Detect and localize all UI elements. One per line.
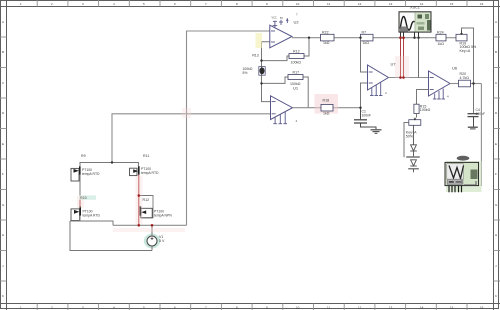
XSC2 pins	[449, 186, 462, 193]
left gate rail	[70, 221, 152, 251]
svg-text:K: K	[2, 294, 4, 298]
resistor R24	[436, 31, 446, 46]
svg-text:H: H	[495, 233, 497, 237]
Q1 emitter down / red segment	[79, 175, 81, 197]
svg-text:B: B	[495, 50, 497, 54]
wire Y4 down to XSC2	[464, 84, 481, 186]
resistor R7	[361, 31, 374, 45]
svg-text:R12: R12	[293, 49, 300, 53]
svg-text:tempA NPN: tempA NPN	[154, 213, 172, 217]
svg-text:5 V: 5 V	[159, 239, 165, 243]
resistor R17	[288, 70, 303, 85]
svg-text:A: A	[495, 20, 497, 24]
svg-text:tempA RTD: tempA RTD	[141, 171, 159, 175]
op-amp U7	[368, 62, 397, 90]
wire U2 minus vertical chain	[262, 42, 271, 102]
output row Y1 wires	[292, 37, 456, 39]
row Y5	[113, 224, 187, 226]
svg-text:15: 15	[450, 306, 454, 310]
wire branch to R12	[262, 38, 310, 61]
op-amp U6	[429, 66, 458, 96]
diode D2	[408, 160, 419, 173]
svg-text:B: B	[2, 50, 4, 54]
svg-text:H: H	[2, 233, 4, 237]
svg-text:11: 11	[327, 2, 330, 6]
Q3 source wire to row Y5	[80, 216, 113, 226]
power stubs U2	[273, 18, 289, 27]
power stubs U1	[273, 112, 287, 124]
svg-text:XSC1: XSC1	[410, 6, 420, 10]
svg-text:K: K	[495, 294, 497, 298]
svg-text:R12: R12	[143, 198, 150, 202]
svg-text:F: F	[495, 172, 497, 176]
svg-text:1kΩ: 1kΩ	[363, 41, 370, 45]
transistor Q1	[71, 166, 100, 181]
pot left terminal bypass wire	[404, 123, 409, 158]
svg-text:F: F	[2, 172, 4, 176]
U6 plus input loop to R21	[417, 90, 429, 105]
svg-text:14: 14	[420, 2, 424, 6]
svg-text:E: E	[495, 142, 497, 146]
wire branch to R17	[262, 77, 309, 108]
svg-text:R24: R24	[437, 31, 444, 35]
oscilloscope XSC1	[399, 6, 431, 32]
svg-text:13: 13	[389, 2, 393, 6]
svg-text:100nF: 100nF	[362, 113, 372, 117]
power stubs U6	[433, 89, 445, 100]
ground after C1	[371, 130, 382, 134]
XSC1 pins	[401, 32, 419, 38]
svg-text:R22: R22	[322, 31, 329, 35]
resistor R21 vertical	[414, 104, 431, 113]
op-amp U2	[270, 20, 300, 48]
capacitor C4	[468, 114, 479, 129]
U6 output row Y4	[450, 83, 481, 85]
svg-text:11: 11	[327, 306, 330, 310]
instrument XSC2	[445, 156, 482, 192]
Q4 gate loop	[139, 196, 153, 218]
output row Y3 wires	[293, 107, 361, 109]
transistor Q3	[71, 207, 101, 221]
resistor R18	[321, 99, 333, 116]
resistor R13 (gain) on vertical	[243, 54, 266, 76]
yellow highlight on wire	[256, 33, 263, 48]
svg-text:12: 12	[358, 2, 362, 6]
svg-text:100kΩ: 100kΩ	[290, 82, 301, 86]
svg-text:12: 12	[358, 306, 362, 310]
svg-text:R13: R13	[252, 54, 259, 58]
svg-text:R7: R7	[362, 31, 367, 35]
svg-text:4.7kΩ: 4.7kΩ	[460, 76, 470, 80]
U7 output row Y2	[389, 77, 429, 79]
diode D1	[406, 125, 420, 157]
potentiometer R19	[456, 28, 477, 113]
pink selection around R18	[315, 94, 339, 114]
svg-text:10: 10	[296, 306, 300, 310]
svg-text:R17: R17	[293, 70, 300, 74]
svg-text:R18: R18	[323, 99, 330, 103]
scope channel wires down to Y2	[401, 38, 419, 78]
svg-text:tempA RTD: tempA RTD	[83, 213, 101, 217]
transistor Q4 (mirrored)	[140, 206, 172, 218]
svg-text:tempA RTD: tempA RTD	[82, 172, 100, 176]
op-amp U1	[271, 86, 299, 120]
svg-text:1kΩ: 1kΩ	[323, 112, 330, 116]
svg-text:R9: R9	[81, 154, 86, 158]
svg-text:1kΩ: 1kΩ	[323, 41, 330, 45]
svg-text:16: 16	[480, 2, 484, 6]
svg-text:13: 13	[389, 306, 393, 310]
svg-text:E: E	[2, 142, 4, 146]
svg-text:R11: R11	[143, 154, 149, 158]
pin number labels	[296, 13, 450, 124]
svg-text:Key=A: Key=A	[460, 49, 471, 53]
svg-text:5%: 5%	[243, 71, 248, 75]
svg-text:VCC: VCC	[272, 17, 277, 20]
svg-text:1kΩ: 1kΩ	[438, 42, 445, 46]
wire to U7 minus	[361, 38, 368, 72]
Q2 emitter red column	[138, 175, 140, 226]
svg-text:U6: U6	[452, 66, 458, 71]
potentiometer R23	[415, 114, 417, 120]
svg-text:15: 15	[450, 2, 454, 6]
faint chroma halos (jpeg-like)	[77, 56, 409, 232]
wire U1+ row from bridge output B	[112, 114, 271, 163]
capacitor C1 below Y3	[354, 108, 376, 130]
svg-text:14: 14	[420, 306, 424, 310]
power stubs U7	[370, 83, 383, 96]
resistor R12	[289, 49, 304, 64]
label R10 (teal)	[79, 195, 96, 199]
svg-text:16: 16	[480, 306, 484, 310]
svg-text:100kΩ: 100kΩ	[291, 60, 302, 64]
svg-text:A: A	[2, 20, 4, 24]
svg-text:U2: U2	[294, 20, 300, 25]
svg-text:10: 10	[296, 2, 300, 6]
svg-text:U1: U1	[293, 86, 299, 91]
svg-text:50%: 50%	[406, 135, 414, 139]
top row wire	[80, 163, 138, 167]
transistor Q2	[130, 166, 160, 175]
svg-text:100kΩ: 100kΩ	[420, 108, 431, 112]
big left vertical wire (bridge output A to U2+)	[187, 31, 270, 225]
source V1	[144, 225, 165, 250]
svg-text:5V: 5V	[280, 17, 283, 20]
resistor R20	[459, 72, 471, 87]
svg-text:100nF: 100nF	[476, 112, 486, 116]
resistor R22	[321, 31, 335, 45]
wire to U7 plus from Y3	[361, 83, 368, 108]
